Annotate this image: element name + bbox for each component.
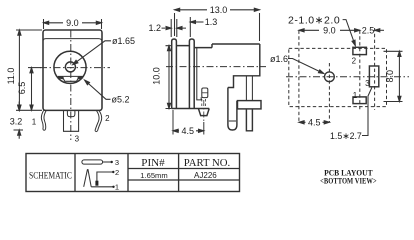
dim 4.5 pcb line (299, 121, 330, 123)
big circle (5.2 barrel) (54, 51, 86, 83)
svg-text:9.0: 9.0 (323, 25, 336, 35)
dim 11.0 ext (16, 30, 42, 110)
dim 6.5 ext (28, 67, 41, 69)
svg-text:<BOTTOM VIEW>: <BOTTOM VIEW> (320, 177, 377, 186)
svg-text:ø5.2: ø5.2 (112, 95, 130, 105)
schematic center pin tent (84, 170, 92, 187)
svg-text:ø1.6: ø1.6 (270, 54, 288, 64)
svg-text:2: 2 (352, 57, 357, 66)
pin 3 (center pin front) (64, 111, 79, 132)
crimp line (229, 120, 236, 122)
body bottom line (172, 108, 210, 110)
chord line (58, 75, 83, 77)
svg-text:3: 3 (115, 158, 119, 167)
svg-text:4.5: 4.5 (182, 126, 195, 136)
svg-text:1: 1 (353, 91, 358, 100)
dim 4.5 side ext (173, 110, 204, 135)
dim 1.3 ext (189, 17, 191, 37)
dim 6.5 line (31, 68, 33, 111)
dim 1.2 arrows (162, 27, 187, 29)
table divider symbol (127, 154, 129, 192)
svg-text:13.0: 13.0 (210, 5, 228, 15)
flange seam line (43, 39, 102, 42)
contact spring (197, 48, 201, 100)
center pin side (pin 3) (198, 109, 209, 116)
hole centerline vertical (328, 63, 330, 122)
dim 9.0 extension lines (44, 19, 102, 29)
schematic pin3 lead (103, 161, 111, 163)
svg-text:11.0: 11.0 (6, 68, 16, 85)
label dia 1.6 leader (288, 59, 324, 74)
label 2-1.0*2.0 leader (343, 20, 356, 46)
svg-text:PART NO.: PART NO. (184, 158, 231, 169)
straight pin (pin 1 side) (246, 109, 252, 131)
small circle (1.65 pin hole) (65, 62, 75, 72)
dim 8.0 line (398, 51, 400, 101)
svg-text:4.5: 4.5 (308, 118, 321, 128)
svg-text:1.2: 1.2 (149, 23, 162, 33)
schematic barrel (pin3) (82, 160, 103, 164)
dim 8.0 ext (384, 51, 403, 101)
svg-text:3.2: 3.2 (10, 117, 23, 127)
pin 1 (left lug) (41, 111, 43, 130)
dim 11.0 line (18, 30, 20, 110)
label dia 5.2 leader (85, 80, 111, 99)
pad 3 (369, 66, 378, 87)
svg-text:2: 2 (105, 114, 110, 123)
svg-text:SCHEMATIC: SCHEMATIC (29, 170, 72, 180)
schematic bottom lead (pin1) (91, 186, 113, 188)
top joining lines (176, 44, 259, 48)
pcb horizontal centerline (286, 76, 409, 78)
table divider schematic (74, 154, 76, 192)
dim 9.0 pcb line (299, 29, 360, 31)
dim 10.0 line (168, 46, 170, 109)
svg-text:2: 2 (115, 168, 119, 177)
dim 1.2 ext (171, 19, 177, 37)
dim 3.2 arrows (18, 102, 20, 139)
svg-text:1: 1 (115, 183, 119, 192)
svg-text:3: 3 (365, 79, 370, 88)
label dia 1.65 leader (73, 41, 111, 65)
schematic switch contact (pin2) (97, 172, 113, 185)
chord end wedge right (78, 77, 83, 78)
svg-text:10.0: 10.0 (152, 67, 162, 85)
flange bar 1 (172, 39, 177, 109)
svg-text:AJ226: AJ226 (194, 171, 217, 180)
table row line 2 (128, 179, 240, 181)
svg-text:8.0: 8.0 (385, 70, 395, 83)
svg-text:1: 1 (32, 118, 37, 127)
pin 2 (right lug) (98, 111, 102, 131)
pin shaft inside body (246, 76, 252, 101)
svg-text:2-1.0∗2.0: 2-1.0∗2.0 (288, 15, 340, 27)
chord end wedge left (58, 77, 64, 78)
horizontal centerline (40, 67, 110, 69)
svg-text:2.5: 2.5 (362, 25, 375, 35)
flange bar 2 (189, 39, 194, 109)
dim 4.5 side line (173, 130, 204, 132)
dim 13.0 ext (175, 13, 260, 41)
svg-text:9.0: 9.0 (66, 18, 79, 28)
svg-text:6.5: 6.5 (17, 82, 27, 95)
pad 2 (353, 47, 367, 54)
svg-text:1.5∗2.7: 1.5∗2.7 (330, 131, 362, 141)
pad3 centerline vertical (374, 28, 376, 110)
svg-text:PIN#: PIN# (141, 158, 165, 169)
svg-text:3: 3 (75, 135, 80, 144)
label 1.5*2.7 leader (362, 88, 372, 136)
vertical centerline (70, 31, 72, 141)
dim 3.2 ext bottom (14, 129, 24, 131)
side centerline (166, 66, 266, 68)
body right edge (228, 44, 260, 88)
table divider pin/part (178, 154, 180, 192)
pcb standoff bar (238, 101, 262, 109)
ref line left dashed (298, 31, 300, 123)
pad 1 (353, 97, 366, 104)
mounting hole circle (325, 72, 335, 82)
svg-text:1.65mm: 1.65mm (140, 171, 167, 180)
front view body (43, 30, 102, 110)
keystone notch (62, 77, 79, 82)
dim 10.0 ext (166, 46, 172, 109)
svg-text:1.3: 1.3 (205, 17, 218, 27)
table frame (26, 154, 240, 192)
inner latch detail (202, 88, 208, 98)
shield pin (rounded, pin 2 side) (228, 88, 237, 131)
dim 13.0 line (175, 9, 260, 11)
dim 1.3 arrow (196, 21, 204, 23)
pads centerline vertical (359, 31, 361, 112)
dim 9.0 line (44, 22, 102, 24)
dim 2.5 pcb arrow (377, 29, 385, 31)
table row line 1 (128, 168, 240, 170)
pcb outline dashed (289, 48, 387, 106)
svg-text:ø1.65: ø1.65 (112, 36, 135, 46)
